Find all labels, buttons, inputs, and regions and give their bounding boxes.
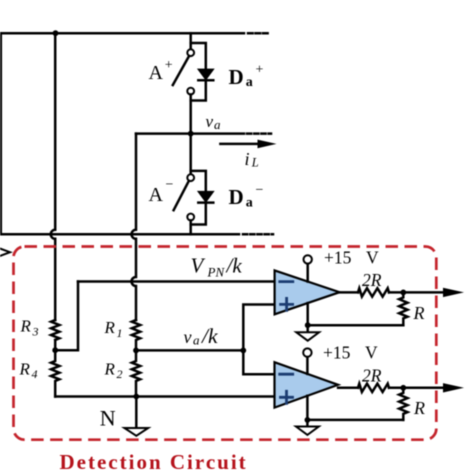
svg-text:+15: +15 <box>324 248 352 268</box>
diode Da- triangle <box>198 192 213 202</box>
svg-text:R: R <box>413 398 425 418</box>
wire: va/k line <box>136 349 243 352</box>
wire: N ground tap <box>135 397 138 429</box>
wire: U2 output <box>338 387 358 390</box>
op-amp U1 <box>275 270 340 314</box>
svg-text:A: A <box>149 62 164 84</box>
op-amp U2 plus sign <box>281 391 293 403</box>
op-amp U1 plus sign <box>281 298 293 310</box>
switch A+ bottom terminal <box>187 88 194 95</box>
svg-text:R: R <box>104 318 116 337</box>
wire: VPN/k line to op-amp U1 inverting input <box>78 280 275 283</box>
svg-text:2R: 2R <box>362 365 382 385</box>
resistor 2R (U2) <box>358 384 389 392</box>
node U1 output tee <box>400 290 406 296</box>
svg-text:+15: +15 <box>323 343 351 363</box>
node N rail junction <box>133 394 139 400</box>
switch A- top terminal <box>187 174 194 181</box>
op-amp U2 <box>275 362 339 407</box>
wire: va dashed continuation <box>247 132 271 135</box>
switch A- bottom terminal <box>187 214 194 221</box>
svg-text:2: 2 <box>117 367 123 381</box>
wire: positive DC rail P <box>0 32 244 35</box>
ground U2 <box>296 427 319 435</box>
node R1/R2 midpoint <box>133 348 139 354</box>
svg-text:a: a <box>246 75 253 90</box>
wire: negative DC rail N bus <box>0 233 239 236</box>
svg-text:2R: 2R <box>362 270 382 290</box>
svg-text:A: A <box>149 184 164 206</box>
wire: U1 ground stem <box>306 303 309 332</box>
svg-text:a: a <box>214 117 221 132</box>
node U1 ground tee <box>305 322 311 328</box>
resistor R1 <box>132 320 140 350</box>
node U2 ground tee <box>305 417 311 423</box>
op-amp U2 minus sign <box>280 373 293 376</box>
wire: va horizontal line <box>136 132 244 135</box>
wire: VPN/k tap up-and-over <box>55 282 78 351</box>
wire: va node to A- top <box>189 134 192 175</box>
svg-text:V: V <box>191 254 206 278</box>
switch A+ top terminal <box>187 49 194 56</box>
resistor R4 <box>51 350 59 396</box>
svg-text:V: V <box>365 343 378 363</box>
svg-text:4: 4 <box>32 367 38 381</box>
node va junction dot <box>188 131 194 137</box>
wire: detection ground rail N to op-amp U2 non-inverting input <box>55 395 274 398</box>
wire: R3 to junction <box>54 340 57 350</box>
svg-text:−: − <box>256 183 264 198</box>
diode Da+ branch <box>191 43 206 101</box>
diode Da- cathode bar <box>198 201 213 204</box>
resistor R2 <box>132 350 140 396</box>
wire: U1 divider return <box>308 324 404 327</box>
diode Da+ cathode bar <box>198 79 213 82</box>
svg-text:R: R <box>20 317 32 336</box>
svg-text:Detection Circuit: Detection Circuit <box>60 450 248 474</box>
node R3/R4 midpoint <box>52 347 58 353</box>
resistor 2R (U1) <box>358 288 389 296</box>
svg-text:L: L <box>251 156 259 170</box>
ground U1 <box>296 332 319 340</box>
node P rail junction dot <box>53 30 59 36</box>
svg-text:V: V <box>366 248 379 268</box>
wire: negative rail dashed continuation <box>243 233 273 236</box>
resistor R (U1 divider) <box>399 292 407 325</box>
svg-text:R: R <box>104 359 116 378</box>
svg-text:R: R <box>413 303 425 323</box>
op-amp U1 minus sign <box>280 280 293 283</box>
svg-text:R: R <box>19 359 31 378</box>
arrow: cropped lead-in at left edge <box>1 249 11 256</box>
ground N <box>124 428 148 436</box>
diode Da- branch <box>191 171 206 225</box>
svg-text:v: v <box>206 112 214 131</box>
wire: 2R to output node <box>389 291 444 294</box>
wire: va/k to op-amp inputs <box>243 305 274 375</box>
resistor R (U2 divider) <box>399 388 407 420</box>
svg-text:a: a <box>246 195 253 210</box>
wire: A- bottom to negative rail <box>189 220 192 234</box>
node va/k tee <box>240 348 246 354</box>
op-amp U2 +15V supply <box>306 357 309 374</box>
wire: va drop to detection circuit with hops <box>132 134 137 320</box>
resistor R3 <box>51 320 59 340</box>
svg-text:i: i <box>245 149 250 169</box>
svg-text:D: D <box>229 65 244 89</box>
wire: 2R to output node (U2) <box>389 387 444 390</box>
node U2 output tee <box>400 385 406 391</box>
svg-text:3: 3 <box>32 324 39 338</box>
svg-text:−: − <box>166 178 174 193</box>
switch A- blade <box>174 182 189 211</box>
svg-text:/k: /k <box>201 324 218 348</box>
wire: U2 divider return <box>307 419 403 422</box>
switch A+ blade <box>173 57 189 86</box>
svg-text:1: 1 <box>117 326 123 340</box>
wire: left DC-link edge <box>0 33 2 234</box>
svg-text:PN: PN <box>207 265 226 280</box>
detection circuit boundary box <box>14 247 437 440</box>
svg-text:v: v <box>184 327 192 347</box>
arrow U2 output <box>443 383 464 392</box>
wire: VPN sense drop from P rail with hops <box>51 33 55 320</box>
arrow U1 output <box>443 288 464 297</box>
svg-text:a: a <box>193 333 200 348</box>
op-amp U1 +15V supply <box>306 264 309 282</box>
svg-text:+: + <box>165 58 173 73</box>
wire: positive rail dashed continuation <box>248 32 270 35</box>
wire: A+ bottom to va node <box>189 95 192 134</box>
arrow iL load current <box>220 143 259 146</box>
svg-text:N: N <box>100 406 116 431</box>
diode Da+ triangle <box>198 69 213 79</box>
wire: U2 ground stem <box>306 396 309 427</box>
wire: U1 output <box>340 291 358 294</box>
svg-text:/k: /k <box>226 254 243 278</box>
svg-text:D: D <box>229 185 244 209</box>
wire: phase leg upper connection <box>189 33 192 49</box>
svg-text:+: + <box>256 63 264 78</box>
